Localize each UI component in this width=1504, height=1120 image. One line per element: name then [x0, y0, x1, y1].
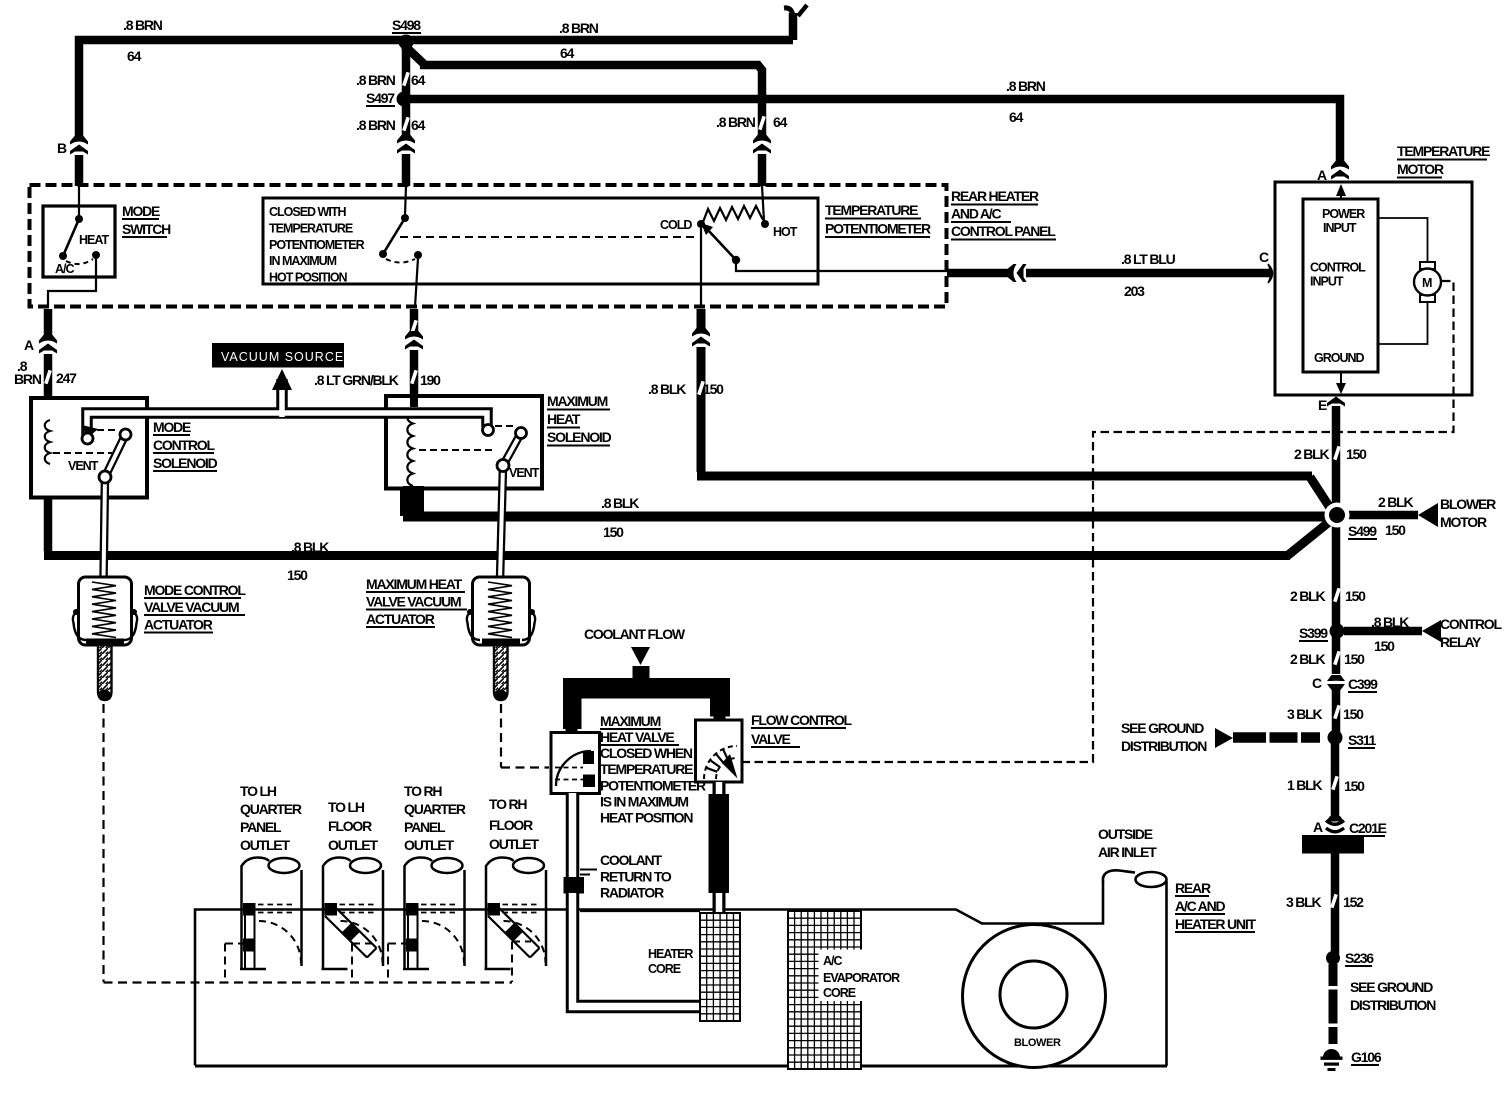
svg-text:150: 150: [703, 381, 724, 397]
svg-text:TO LH: TO LH: [328, 799, 365, 815]
svg-text:GROUND: GROUND: [1314, 351, 1365, 365]
flow control valve: [696, 720, 743, 782]
svg-text:RADIATOR: RADIATOR: [600, 885, 664, 901]
thin wire S497-drop into closed-with switch: [405, 186, 406, 215]
svg-text:HEAT VALVE: HEAT VALVE: [600, 729, 674, 745]
svg-text:VACUUM SOURCE: VACUUM SOURCE: [221, 350, 344, 364]
svg-text:A: A: [24, 337, 34, 353]
svg-text:S311: S311: [1348, 732, 1377, 748]
svg-text:MAXIMUM: MAXIMUM: [547, 393, 608, 409]
dashed ground wire below S236: [1329, 964, 1338, 1046]
wire .8 BRN 64 from B up and across top to S498 and right: [75, 44, 84, 139]
motor inner module box: [1303, 199, 1378, 372]
potentiometer wiper arm with arrowhead: [707, 229, 736, 260]
svg-text:POTENTIOMETER: POTENTIOMETER: [600, 778, 706, 794]
svg-text:OUTLET: OUTLET: [404, 837, 454, 853]
A/C evaporator core grid: [788, 911, 861, 1069]
svg-text:1 BLK: 1 BLK: [1287, 777, 1323, 793]
mode solenoid coil: [45, 420, 50, 464]
svg-text:INPUT: INPUT: [1323, 221, 1357, 235]
evaporator grid notch for label: [819, 950, 863, 1002]
motor wiring thin lines: [1378, 218, 1428, 262]
svg-text:247: 247: [56, 370, 77, 386]
svg-text:SOLENOID: SOLENOID: [153, 455, 218, 471]
inline connector on .8 LT BLU wire: [1008, 264, 1027, 282]
svg-text:MODE: MODE: [153, 419, 191, 435]
splice S497: [397, 92, 412, 107]
svg-text:2 BLK: 2 BLK: [1290, 651, 1326, 667]
svg-text:.8 BRN: .8 BRN: [356, 117, 396, 133]
svg-text:MODE: MODE: [122, 203, 160, 219]
svg-text:S236: S236: [1345, 950, 1374, 966]
svg-text:3 BLK: 3 BLK: [1287, 706, 1323, 722]
connector C399: [1327, 675, 1345, 690]
svg-text:VALVE VACUUM: VALVE VACUUM: [144, 599, 239, 615]
ground symbol G106: [1321, 1049, 1343, 1071]
svg-text:SEE GROUND: SEE GROUND: [1350, 979, 1433, 995]
svg-text:BRN: BRN: [14, 371, 42, 387]
outlet tube RH floor: [485, 858, 547, 970]
svg-text:.8 BRN: .8 BRN: [559, 20, 599, 36]
svg-text:S399: S399: [1299, 625, 1328, 641]
svg-text:OUTLET: OUTLET: [240, 837, 290, 853]
coolant return channel from max heat valve: [564, 793, 701, 1007]
svg-text:C399: C399: [1348, 676, 1378, 692]
svg-text:HEAT: HEAT: [79, 233, 109, 247]
wire .8 BLK below left solenoid to bottom bundle: [44, 499, 53, 551]
svg-text:CONTROL: CONTROL: [1310, 261, 1366, 275]
svg-text:TO RH: TO RH: [404, 783, 442, 799]
svg-text:BLOWER: BLOWER: [1014, 1037, 1061, 1049]
wire S497 across to temperature motor A: [404, 99, 1340, 163]
svg-text:SWITCH: SWITCH: [122, 221, 171, 237]
heater core box: [580, 910, 700, 912]
svg-text:HEATER: HEATER: [648, 947, 693, 961]
heater core / evap labels: [648, 947, 1061, 1049]
svg-text:150: 150: [1385, 522, 1406, 538]
middle bundle wire from max heat solenoid to S499: [403, 486, 1331, 517]
svg-text:64: 64: [411, 72, 426, 88]
svg-text:HEATER UNIT: HEATER UNIT: [1175, 916, 1257, 932]
svg-text:203: 203: [1124, 283, 1145, 299]
wire .8 BLK below COLD: [697, 309, 706, 472]
connector E below temperature motor: [1327, 388, 1345, 407]
svg-text:2 BLK: 2 BLK: [1290, 588, 1326, 604]
see ground distribution arrow and dashed wire at S311: [1215, 728, 1233, 748]
mechanical link dashed mode/pot: [400, 236, 698, 238]
svg-text:QUARTER: QUARTER: [404, 801, 466, 817]
svg-text:64: 64: [773, 114, 788, 130]
mode switch box: [43, 206, 115, 277]
svg-text:TO RH: TO RH: [489, 796, 527, 812]
svg-text:CORE: CORE: [648, 962, 681, 976]
actuator dashed vacuum-rod routing: [102, 704, 104, 982]
mode switch contacts and blade: [59, 215, 100, 264]
svg-text:CONTROL: CONTROL: [1440, 616, 1502, 632]
svg-text:S497: S497: [366, 90, 395, 106]
svg-text:SEE GROUND: SEE GROUND: [1121, 720, 1204, 736]
wire .8 LT GRN/BLK stub into solenoid: [410, 398, 418, 407]
svg-text:VENT: VENT: [68, 459, 99, 473]
svg-text:HEAT POSITION: HEAT POSITION: [600, 810, 693, 826]
svg-text:TO LH: TO LH: [240, 783, 277, 799]
svg-text:150: 150: [287, 567, 308, 583]
svg-text:.8 BRN: .8 BRN: [716, 114, 756, 130]
svg-text:REAR HEATER: REAR HEATER: [951, 188, 1039, 204]
svg-text:IN MAXIMUM: IN MAXIMUM: [269, 254, 337, 268]
svg-text:IS IN MAXIMUM: IS IN MAXIMUM: [600, 794, 688, 810]
svg-text:PANEL: PANEL: [404, 819, 446, 835]
splice S498: [399, 35, 414, 50]
wire .8 LT BLU from panel to temperature motor C: [947, 269, 1270, 278]
max heat solenoid box: [386, 396, 542, 489]
svg-text:M: M: [1422, 276, 1432, 290]
maximum heat valve: [551, 733, 600, 794]
mode control valve vacuum actuator: [73, 577, 137, 701]
svg-text:FLOW CONTROL: FLOW CONTROL: [751, 712, 853, 728]
temperature potentiometer resistor zigzag: [703, 206, 765, 222]
svg-text:HEAT: HEAT: [547, 411, 581, 427]
svg-text:AIR INLET: AIR INLET: [1098, 844, 1157, 860]
svg-text:.8 BRN: .8 BRN: [123, 17, 163, 33]
svg-text:64: 64: [411, 117, 426, 133]
svg-text:3 BLK: 3 BLK: [1286, 894, 1322, 910]
svg-text:TEMPERATURE: TEMPERATURE: [269, 222, 353, 236]
svg-text:POTENTIOMETER: POTENTIOMETER: [825, 221, 931, 237]
wire S498 to S497 vertical: [402, 42, 411, 99]
svg-text:.8 BRN: .8 BRN: [1006, 78, 1046, 94]
connector B: [70, 136, 88, 155]
closed-with note: [269, 205, 365, 285]
svg-text:QUARTER: QUARTER: [240, 801, 302, 817]
svg-text:.8 BLK: .8 BLK: [1371, 614, 1409, 630]
motor M circle: [1420, 262, 1435, 269]
svg-text:MAXIMUM: MAXIMUM: [600, 713, 661, 729]
svg-text:ACTUATOR: ACTUATOR: [144, 617, 213, 633]
white slash break marks on wires: [44, 72, 1341, 908]
svg-text:2 BLK: 2 BLK: [1294, 446, 1330, 462]
svg-text:RETURN TO: RETURN TO: [600, 869, 672, 885]
svg-text:DISTRIBUTION: DISTRIBUTION: [1350, 997, 1436, 1013]
svg-text:C201E: C201E: [1349, 820, 1387, 836]
svg-text:COLD: COLD: [660, 218, 692, 232]
svg-text:.8 BLK: .8 BLK: [648, 381, 686, 397]
svg-text:TEMPERATURE: TEMPERATURE: [1397, 143, 1490, 159]
svg-text:150: 150: [1374, 638, 1395, 654]
svg-text:A: A: [1317, 167, 1327, 183]
svg-text:MOTOR: MOTOR: [1397, 161, 1444, 177]
outside air inlet scoop: [1103, 870, 1135, 881]
svg-text:150: 150: [1346, 446, 1367, 462]
svg-text:E: E: [1318, 397, 1327, 413]
svg-text:VALVE VACUUM: VALVE VACUUM: [366, 594, 461, 610]
svg-text:152: 152: [1343, 894, 1364, 910]
svg-text:FLOOR: FLOOR: [489, 817, 533, 833]
svg-text:CONTROL PANEL: CONTROL PANEL: [951, 223, 1056, 239]
svg-text:.8 BRN: .8 BRN: [356, 72, 396, 88]
coolant supply pipe (solid): [563, 666, 730, 733]
svg-text:CLOSED WITH: CLOSED WITH: [269, 205, 346, 219]
splice S236: [1326, 951, 1340, 965]
dashed box REAR HEATER AND A/C CONTROL PANEL: [30, 185, 947, 307]
svg-text:64: 64: [560, 45, 575, 61]
ground arrow to E: [1340, 372, 1342, 384]
inner solid box with switch + potentiometer: [263, 198, 818, 284]
maximum heat valve vacuum actuator: [467, 577, 535, 701]
svg-text:OUTSIDE: OUTSIDE: [1098, 826, 1153, 842]
connector A left column: [39, 335, 57, 354]
svg-text:.8 BLK: .8 BLK: [601, 495, 639, 511]
control relay stub: [1344, 627, 1422, 636]
svg-text:FLOOR: FLOOR: [328, 818, 372, 834]
svg-text:.8 LT BLU: .8 LT BLU: [1121, 251, 1176, 267]
blower wheel: [963, 925, 1106, 1068]
coolant flow arrow: [631, 647, 650, 665]
svg-text:RELAY: RELAY: [1440, 634, 1482, 650]
max heat solenoid coil: [407, 411, 413, 486]
svg-text:150: 150: [1344, 651, 1365, 667]
svg-text:MODE CONTROL: MODE CONTROL: [144, 582, 246, 598]
closed-with switch contacts and blade: [379, 214, 422, 263]
wiper output thin wire to panel edge: [736, 262, 947, 271]
svg-text:CLOSED WHEN: CLOSED WHEN: [600, 745, 693, 761]
svg-text:CONTROL: CONTROL: [153, 437, 215, 453]
svg-text:S498: S498: [392, 17, 421, 33]
connector C201E : two smile arcs: [1326, 816, 1344, 822]
wire S498 branch to HOT: [404, 45, 762, 186]
svg-text:HOT: HOT: [773, 225, 798, 239]
svg-text:REAR: REAR: [1175, 880, 1211, 896]
svg-text:C: C: [1312, 675, 1322, 691]
svg-text:PANEL: PANEL: [240, 819, 282, 835]
svg-text:S499: S499: [1348, 523, 1377, 539]
svg-text:A/C: A/C: [55, 262, 75, 276]
svg-text:AND A/C: AND A/C: [951, 206, 1002, 222]
small arrow into mode solenoid port: [82, 425, 98, 439]
svg-text:SOLENOID: SOLENOID: [547, 429, 612, 445]
top right continuation arrow: [784, 5, 807, 18]
power input arrow from A: [1340, 186, 1342, 199]
svg-text:VALVE: VALVE: [751, 731, 790, 747]
thin wire COLD down: [700, 228, 702, 307]
svg-text:HOT POSITION: HOT POSITION: [269, 271, 348, 285]
svg-text:A/C: A/C: [823, 954, 843, 968]
svg-text:EVAPORATOR: EVAPORATOR: [823, 971, 900, 985]
svg-text:TEMPERATURE: TEMPERATURE: [825, 202, 918, 218]
svg-text:2 BLK: 2 BLK: [1378, 494, 1414, 510]
flow control valve to heater core channel: [709, 782, 730, 912]
control relay arrow: [1422, 620, 1441, 642]
mode solenoid lever rods: [104, 435, 126, 581]
svg-text:G106: G106: [1351, 1049, 1382, 1065]
outlet tube RH quarter panel: [403, 858, 465, 970]
thin wire closed-with switch down: [415, 258, 418, 307]
svg-text:150: 150: [1345, 588, 1366, 604]
svg-text:OUTLET: OUTLET: [489, 836, 539, 852]
thin wire from B into mode switch: [78, 186, 80, 216]
right main ground wire segments: [1332, 406, 1341, 510]
svg-text:COOLANT FLOW: COOLANT FLOW: [584, 626, 686, 642]
dashed feedback line from motor to flow control valve: [743, 281, 1454, 762]
connector C at temperature motor: crescent + arrow: [1268, 264, 1303, 283]
top bundle wire COLD to S499: [697, 476, 1334, 514]
connector on COLD wire: [692, 328, 710, 347]
mode control solenoid box: [31, 398, 147, 498]
splice S311: [1328, 730, 1343, 745]
svg-text:A: A: [1313, 819, 1323, 835]
svg-text:150: 150: [603, 524, 624, 540]
svg-text:150: 150: [1343, 706, 1364, 722]
svg-text:INPUT: INPUT: [1310, 275, 1344, 289]
svg-text:TEMPERATURE: TEMPERATURE: [600, 761, 693, 777]
firewall grommet black rectangle at C201E: [1302, 835, 1364, 854]
heater core grid: [700, 913, 740, 1021]
wire .8 BRN 247 below mode switch: [44, 309, 53, 396]
svg-text:B: B: [57, 140, 67, 156]
splice S499 (white ring): [1325, 503, 1350, 528]
svg-text:MAXIMUM HEAT: MAXIMUM HEAT: [366, 576, 463, 592]
svg-text:A/C AND: A/C AND: [1175, 898, 1226, 914]
connector on LT GRN/BLK wire: [405, 331, 423, 350]
vacuum hose channel between solenoids: [87, 377, 487, 438]
svg-text:MOTOR: MOTOR: [1440, 514, 1487, 530]
svg-text:POTENTIOMETER: POTENTIOMETER: [269, 238, 365, 252]
thin wire mode switch to A drop: [48, 258, 96, 307]
connector on S497 drop: [397, 135, 415, 154]
svg-text:VENT: VENT: [509, 466, 540, 480]
svg-text:DISTRIBUTION: DISTRIBUTION: [1121, 738, 1207, 754]
wire .8 LT GRN/BLK below panel to max heat solenoid: [410, 309, 419, 403]
motor outer box: [1275, 182, 1472, 395]
connector on HOT drop: [753, 135, 771, 154]
splice S399: [1330, 624, 1345, 639]
solenoid internal dashed lines: [97, 429, 119, 431]
blower motor stub: [1345, 511, 1418, 520]
svg-text:C: C: [1259, 249, 1269, 265]
svg-text:OUTLET: OUTLET: [328, 837, 378, 853]
max heat solenoid lever rods: [500, 433, 521, 580]
bottom bundle wire to S499: [44, 518, 1334, 556]
svg-text:CORE: CORE: [823, 986, 856, 1000]
blower motor arrow: [1418, 503, 1438, 527]
svg-text:COOLANT: COOLANT: [600, 852, 662, 868]
svg-text:.8 LT GRN/BLK: .8 LT GRN/BLK: [314, 372, 399, 388]
coolant return label leader ticks: [580, 870, 597, 875]
svg-text:64: 64: [127, 48, 142, 64]
svg-text:ACTUATOR: ACTUATOR: [366, 611, 435, 627]
thin wire HOT drop into potentiometer: [762, 186, 764, 221]
svg-text:64: 64: [1009, 109, 1024, 125]
outlet tube LH floor: [322, 858, 384, 970]
connector A at temperature motor: [1331, 161, 1349, 180]
vacuum source arrowhead: [272, 369, 292, 390]
svg-text:150: 150: [1344, 778, 1365, 794]
outlet tube LH quarter panel: [240, 858, 302, 970]
svg-text:.8 BLK: .8 BLK: [291, 539, 329, 555]
svg-text:POWER: POWER: [1322, 207, 1365, 221]
wire S497 down to control panel: [402, 99, 411, 186]
svg-text:190: 190: [420, 372, 441, 388]
wide wire stub below max heat solenoid: [403, 486, 424, 518]
terminal + pivot circles: [82, 433, 93, 444]
svg-text:BLOWER: BLOWER: [1440, 496, 1496, 512]
